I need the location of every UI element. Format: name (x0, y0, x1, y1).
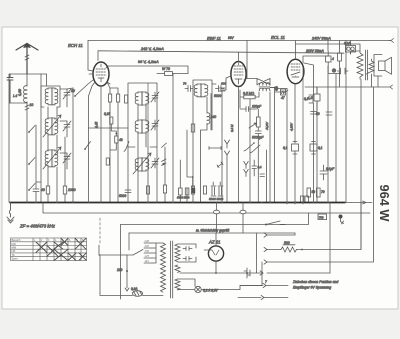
svg-text:0,1: 0,1 (283, 146, 288, 150)
resistor 500 zigzag (281, 247, 297, 252)
IFT1 trimmer A (151, 92, 159, 102)
variable arrow coil3 (43, 147, 61, 169)
heater line (43, 203, 370, 214)
svg-text:216V 33mA: 216V 33mA (305, 49, 324, 53)
svg-text:70: 70 (321, 190, 325, 194)
band table header ticks (34, 239, 84, 242)
cathode bracket component (309, 95, 313, 103)
wire x118 column (110, 88, 118, 202)
resistor box x193 (191, 124, 194, 132)
wire speaker line (305, 86, 390, 88)
wire heater line bottom (178, 289, 241, 291)
capacitor 1,5 box (314, 87, 320, 110)
wire bead stub (270, 88, 287, 89)
tube V1 internals (96, 64, 106, 82)
svg-text:0,1: 0,1 (318, 146, 323, 150)
wire antenna column down to bus (26, 74, 28, 202)
svg-text:300: 300 (221, 82, 226, 86)
node dot x339 (339, 73, 341, 75)
wire trimmer3 column (60, 153, 67, 169)
chassis heavy bus (10, 202, 345, 204)
wire y235 (267, 234, 295, 236)
wire 6V line (180, 272, 330, 274)
node dot c1 (28, 131, 30, 133)
wire rail x73 top hook (67, 88, 73, 89)
wire x110 column (107, 82, 110, 202)
speaker magnet (379, 61, 386, 71)
band table row labels (12, 238, 21, 261)
node dot mains (126, 270, 128, 272)
resistor box x110 (109, 94, 112, 102)
connector plug y297 (261, 295, 264, 299)
electrolytic cap 4uF (326, 51, 332, 66)
svg-text:50: 50 (316, 112, 320, 116)
wire IFT2 columns (193, 94, 211, 203)
speaker frame (374, 55, 382, 77)
speaker cone (385, 57, 392, 74)
wire y249 to corner (297, 202, 362, 250)
capacitor x222 (219, 88, 225, 130)
svg-text:0,5 M: 0,5 M (230, 124, 234, 132)
switch contact left row1 (29, 126, 35, 133)
detector coil row2 (259, 88, 270, 90)
wire coil1 frame (41, 86, 60, 107)
wire feed column x173 (172, 74, 174, 203)
wire x138 to bus (137, 147, 139, 202)
tube V4 AZ11 envelope (208, 246, 223, 261)
wire x346 column (345, 41, 347, 203)
svg-text:125: 125 (145, 254, 150, 258)
svg-text:ZF = 468/473 kHz: ZF = 468/473 kHz (19, 224, 56, 229)
wire rail x73 (72, 88, 74, 202)
pot wiper arrow (249, 123, 257, 128)
svg-text:1,5: 1,5 (308, 96, 313, 100)
wire rail x57 (56, 107, 58, 202)
T1 core (171, 241, 173, 298)
wire screen rail 96V (98, 51, 344, 53)
T2 secondary (367, 59, 375, 74)
svg-text:TA: TA (12, 253, 15, 257)
wire B+ rail 242V (88, 40, 391, 42)
wire IFT2 grid link (212, 76, 231, 90)
wire V2 cathode to bus (238, 87, 240, 203)
tone switch contacts (244, 143, 260, 153)
resistor W70 feed (165, 72, 173, 76)
wire x222 lower (221, 130, 223, 202)
band table frame (11, 238, 87, 261)
T1 secondary heater (175, 279, 180, 290)
wire x303 column (302, 68, 304, 204)
node dot c2 (28, 163, 30, 165)
bandfilter coil stack 2 (45, 118, 58, 136)
transformer T1 primary (161, 243, 166, 292)
node dot switch mid (84, 148, 86, 150)
capacitor low at x36 (33, 182, 39, 198)
wire x243 drop to box (242, 203, 244, 234)
barrel component x243 (240, 210, 246, 214)
mains switch lever (266, 221, 285, 225)
contact x164 (162, 143, 167, 148)
resistor box x309 low (307, 188, 311, 197)
svg-text:EBF 11: EBF 11 (207, 36, 222, 41)
electrolytic cap 50uF (332, 68, 348, 74)
wire volume to mains dashed (99, 218, 101, 245)
connector plug top right B+ (389, 39, 394, 43)
T1 secondary HT (175, 244, 180, 262)
svg-text:48: 48 (119, 138, 123, 142)
wire V3 top to B+ (295, 41, 297, 60)
tube V2 internals (234, 63, 243, 84)
svg-text:5000pF: 5000pF (252, 136, 264, 140)
wire trimmer1 column (60, 89, 67, 107)
detector core lines (259, 87, 270, 88)
svg-text:Sperr: Sperr (12, 257, 18, 261)
wire osc feedback column x88 (88, 96, 90, 202)
wire primary top (156, 242, 163, 244)
svg-text:AZ 11: AZ 11 (208, 240, 221, 245)
svg-text:0,15: 0,15 (104, 112, 110, 116)
node dot mains switch (265, 224, 267, 226)
svg-text:0,1µF: 0,1µF (326, 167, 335, 171)
svg-text:1000: 1000 (68, 188, 76, 192)
wire IFT1 columns down (138, 105, 146, 147)
wire x330 riser (329, 202, 331, 273)
resistor low x165 (163, 185, 166, 193)
resistor box x126 (125, 95, 128, 103)
svg-text:KW: KW (12, 242, 17, 246)
tie line x209-x221 (209, 147, 221, 150)
capacitor low x128 (125, 190, 131, 193)
svg-text:MW: MW (12, 246, 17, 250)
svg-text:220: 220 (116, 268, 123, 272)
wire x187 col (187, 130, 193, 202)
IFT2 left cap (185, 86, 193, 92)
trimmer T3 (63, 153, 71, 163)
wire AZ output (215, 233, 217, 273)
svg-text:110: 110 (145, 259, 150, 263)
variable arrow coil C (133, 153, 151, 174)
wire x36 stub (36, 182, 41, 202)
resistor box x118 (117, 94, 120, 102)
wire speaker drops (372, 74, 379, 87)
pickup Y jacks pair B (244, 161, 249, 176)
wire y262 to corner (267, 87, 374, 262)
component box 750 (318, 214, 327, 220)
svg-text:964 W: 964 W (377, 185, 392, 223)
wire x361 column (360, 79, 362, 250)
ECH pin stubs (89, 82, 111, 96)
wire x128 to bus (127, 147, 129, 202)
node dot x116 (115, 133, 117, 135)
resistor 0,5 MOhm (244, 95, 255, 99)
trimmer coil C (151, 158, 159, 168)
capacitor 5000pF (255, 131, 261, 140)
capacitor x262b (260, 174, 265, 177)
svg-text:96V: 96V (228, 36, 235, 40)
connector plug y273 (260, 271, 263, 275)
wire elco row (328, 66, 339, 87)
wire y249 to resistor (267, 249, 281, 251)
wire x270 column (269, 92, 271, 202)
capacitor x329 mid (326, 112, 332, 115)
wire mains row (99, 254, 133, 256)
resistor R low1 (46, 186, 49, 194)
wire V3 cathode down (294, 84, 296, 143)
volume potentiometer (257, 117, 261, 127)
wire rail x65 (64, 137, 66, 202)
selector tap labels (144, 239, 150, 263)
wire HT to AZ (178, 244, 197, 262)
svg-text:W 70: W 70 (162, 67, 170, 71)
svg-text:220: 220 (144, 244, 150, 248)
IF transformer 1 frame (128, 83, 157, 147)
wire input top row right branch (46, 74, 48, 86)
wire taps to primary (152, 243, 156, 263)
wire x339 column (339, 41, 341, 74)
wire y285 stub (240, 285, 288, 287)
svg-text:L4: L4 (13, 94, 17, 98)
wire pot column (257, 109, 259, 131)
svg-text:ECL 11: ECL 11 (271, 35, 286, 40)
connector plug y235 (264, 233, 267, 237)
wire W70 row (157, 73, 188, 75)
paired boxes x179 x186 (179, 188, 196, 195)
ground symbol (7, 203, 14, 224)
svg-text:0,1: 0,1 (258, 165, 263, 169)
mains column x127 (125, 255, 129, 291)
svg-text:0,5 MΩ: 0,5 MΩ (243, 91, 254, 95)
wire x295 lower (294, 151, 296, 204)
coil 50 (207, 112, 210, 125)
wire tone column (257, 140, 259, 202)
wire antenna junction row (10, 73, 47, 75)
svg-text:m. Gleichrichter geprüft: m. Gleichrichter geprüft (196, 229, 229, 233)
cap pair AZ left bottom (183, 257, 192, 261)
hook symbol (341, 219, 344, 225)
connector plug y285 (263, 283, 266, 287)
coil L1 antenna (24, 84, 27, 103)
wire mid rail x48 (47, 107, 49, 202)
svg-text:44,8V: 44,8V (265, 121, 269, 130)
svg-text:0,3A: 0,3A (344, 42, 351, 46)
wire x180 col (179, 160, 181, 202)
svg-text:4,15V: 4,15V (290, 122, 294, 131)
wire x157 to bus (156, 147, 158, 202)
elco on 6V line (244, 268, 250, 278)
svg-text:150: 150 (145, 249, 150, 253)
connector ticks antenna column (25, 105, 29, 110)
capacitor 100pF (240, 107, 257, 112)
capacitor 0,1 right (310, 142, 317, 155)
bus end arrow (345, 201, 372, 204)
antenna A (16, 44, 38, 75)
wire V1 grid left stub (89, 73, 93, 75)
bandfilter coil pair C (135, 158, 149, 172)
svg-text:242 V, 4,2mA: 242 V, 4,2mA (140, 47, 164, 51)
svg-text:240: 240 (210, 115, 217, 119)
bead component (275, 86, 279, 91)
band table X marks (36, 238, 86, 260)
IFT2 right cap (216, 86, 225, 92)
svg-text:4: 4 (332, 57, 334, 61)
mains fuse (133, 291, 143, 297)
wire x313 column (304, 63, 314, 202)
resistor box mid x116 (115, 136, 118, 143)
connector plug right spk (390, 85, 393, 89)
svg-text:5000 5000: 5000 5000 (209, 197, 224, 201)
power box inner top (129, 232, 295, 234)
node switch dot (74, 95, 76, 97)
wire pickup stubs (226, 159, 228, 202)
pickup Y jacks (225, 140, 230, 159)
wire ECH top to screen rail (97, 51, 99, 61)
switch contact right (124, 142, 129, 152)
wire x148 mid (147, 83, 149, 147)
wire x36 upper (35, 125, 37, 182)
capacitor 0,1 left (292, 142, 299, 155)
wire x266 column (266, 150, 268, 202)
barrel component x216 (214, 210, 220, 214)
svg-text:LW: LW (12, 249, 16, 253)
wire fuse drop (350, 41, 352, 55)
svg-text:50: 50 (312, 190, 316, 194)
svg-text:ECH 11: ECH 11 (68, 43, 83, 48)
output transformer T2 primary (357, 51, 363, 79)
wire left rail x41 (40, 74, 42, 202)
wire AVC rail (106, 66, 188, 74)
IFT1 coil pair B (135, 120, 149, 134)
slant cap x220 (217, 162, 223, 168)
node corner B+ left (88, 41, 93, 72)
switch contact left row2 (29, 158, 35, 165)
wire trimmer2 column (60, 121, 67, 137)
wire AVC left rail (9, 74, 10, 202)
svg-text:96 V, 4,2mA: 96 V, 4,2mA (138, 60, 159, 64)
svg-text:40: 40 (41, 188, 45, 192)
wire mains bottom (99, 255, 163, 296)
component bars x254 (252, 160, 257, 176)
pilot lamp (195, 286, 201, 292)
wire osc link row (89, 127, 129, 129)
svg-text:0,8A: 0,8A (131, 287, 138, 291)
capacitor 0,1uF mid (320, 165, 327, 180)
power box outer top (121, 213, 309, 225)
tube V2 EBF11 envelope (231, 62, 246, 87)
capacitor C1 antenna series (7, 74, 13, 103)
wire link connectors (261, 262, 263, 285)
svg-text:Empfänger 6V Spannung: Empfänger 6V Spannung (293, 286, 331, 290)
fuse 0,3A box (346, 46, 356, 53)
node dot x192 (192, 176, 194, 178)
wire heater line top (178, 279, 196, 287)
wire lamp return (240, 286, 262, 290)
wire box interior right column (256, 233, 258, 273)
component x163 bars (162, 159, 167, 166)
resistor low x205 (203, 186, 206, 194)
wire x116 link (110, 124, 116, 150)
wire V2 top to B+ (238, 52, 240, 61)
node dot y249 (301, 249, 303, 251)
svg-text:5000 5000: 5000 5000 (177, 196, 190, 200)
paired caps 5000 5000 (211, 182, 223, 196)
IFT2 coil pair (194, 84, 208, 98)
variable arrow coil2 (43, 115, 61, 137)
svg-text:47: 47 (281, 96, 285, 100)
resistor low x148 (146, 186, 149, 194)
bandfilter coil stack 3 (45, 150, 58, 168)
resistor box mid x111 (110, 117, 113, 124)
svg-text:4,45: 4,45 (95, 122, 99, 128)
svg-text:240: 240 (144, 239, 150, 243)
trimmer T2 (63, 121, 71, 131)
node dot 6V (215, 272, 217, 274)
wire x317 column (316, 87, 318, 202)
svg-text:5000: 5000 (119, 194, 126, 198)
switch contact mid (85, 142, 91, 150)
wire x350p stub (350, 52, 352, 54)
wire box right edge (294, 233, 296, 235)
wire x165 column (164, 147, 166, 202)
node dot c3 (28, 189, 30, 191)
paired boxes 5000 (301, 196, 309, 203)
svg-text:70: 70 (183, 82, 187, 86)
node dot elco (246, 272, 248, 274)
resistor low x193 (191, 186, 194, 194)
resistor box x108 low (106, 158, 109, 165)
wire V1 cathode to bus (100, 86, 102, 202)
wire cap bottom to coil bottom (10, 102, 27, 104)
knob dot (339, 215, 343, 219)
wire grid link (270, 88, 288, 203)
wire x250 column (249, 99, 251, 202)
switch contact left row3 (29, 184, 35, 191)
svg-text:750: 750 (319, 215, 324, 219)
wire V3 plate top right (303, 56, 328, 63)
detector coil row1 (259, 83, 270, 85)
wire T2 top feed (296, 44, 361, 54)
T2 core (366, 50, 368, 80)
capacitor x313 (311, 112, 317, 115)
T1 secondary 6V (175, 265, 180, 272)
voltage selector wiper (133, 250, 143, 256)
label 500 underline (283, 244, 295, 246)
connector plug y262 (264, 260, 267, 264)
svg-text:500: 500 (284, 241, 290, 245)
svg-text:7: 7 (265, 280, 267, 284)
wire y297 stub (238, 297, 288, 299)
svg-text:0,69: 0,69 (18, 89, 22, 96)
wire screen feed x247 (244, 41, 247, 81)
svg-text:10: 10 (30, 103, 34, 107)
resistor box x318 low (317, 188, 321, 197)
node dots tone switch (253, 142, 255, 144)
wire x287 column (286, 89, 288, 205)
power box outer left edge (120, 225, 122, 300)
grid stopper box (281, 89, 286, 95)
trimmer T1 (63, 89, 71, 99)
component x163 dot (162, 163, 164, 165)
IFT1 trimmer B (151, 120, 159, 130)
wire x216 drop to box (216, 203, 218, 234)
svg-text:240V 33mA: 240V 33mA (311, 37, 331, 41)
wire x148 to bus (147, 147, 149, 202)
svg-text:Zwischen diesen Punkten und: Zwischen diesen Punkten und (292, 280, 338, 284)
antenna lead connector ticks (25, 55, 29, 60)
selector taps (144, 243, 152, 263)
wire x328 column (327, 41, 329, 203)
resistor R low2 (63, 186, 66, 194)
detector crossing wires (246, 79, 270, 86)
